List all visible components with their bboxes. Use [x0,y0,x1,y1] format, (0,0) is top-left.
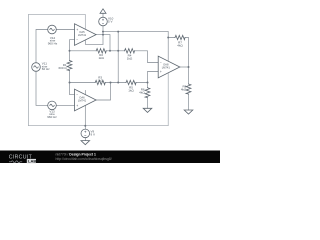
wire V11 to V13 [36,71,48,105]
source V12 [48,25,57,34]
svg-text:1kΩ: 1kΩ [127,57,133,61]
source V10 [99,17,108,26]
wire R1 bottom to R3 wire to OA6 - input [70,71,75,95]
wire R2 R4 node line [70,50,97,52]
wire R3 R5 node line [70,82,96,84]
ground G2 [143,108,152,112]
wire OA5 output [96,35,110,51]
wire OA5 V- U path [85,40,103,44]
wire OA8 V+ stub [167,38,169,62]
component labels [42,16,187,136]
wire between R3 and R5 [105,82,126,84]
svg-text:−: − [76,38,78,42]
circuitlab logo [9,155,37,164]
footer text [56,153,112,161]
svg-text:4kΩ: 4kΩ [139,91,145,95]
wire between R2 and R4 [106,50,124,52]
resistor R6 [145,88,150,98]
wire OA6 V- stub to bottom rail [84,105,86,129]
resistor R8 [186,84,191,94]
source polarity marks [84,19,104,136]
wire R4 to OA8 - input [135,51,159,63]
source V13 [48,101,57,110]
V10 plus minus [102,19,104,21]
svg-text:−: − [160,61,162,65]
wire OA6 output feedback [96,83,110,101]
ground G1 [81,141,90,145]
svg-text:1kΩ: 1kΩ [128,89,134,93]
op-amp input marks [76,28,162,108]
svg-text:LM741: LM741 [162,66,171,70]
resistor R4 [125,49,135,53]
resistor R7 [175,35,185,39]
wire R6 to ground [147,98,149,109]
svg-text:1kΩ: 1kΩ [98,56,104,60]
svg-text:http://circuitlab.com/c/dsahkx: http://circuitlab.com/c/dsahkxsqlbsg8/ [56,157,112,161]
wire OA8 output [180,66,189,68]
svg-text:+: + [160,70,162,74]
wire rail to R7 jog [168,32,175,38]
vcc arrow [100,9,106,14]
svg-text:LM741: LM741 [78,99,87,103]
svg-text:4kΩ: 4kΩ [181,88,187,92]
source V9 [81,129,90,138]
ground G3 [184,110,193,114]
svg-text:1kΩ: 1kΩ [97,78,103,82]
svg-text:LM741: LM741 [78,33,87,37]
svg-text:LAB: LAB [28,159,36,164]
svg-text:+: + [76,104,78,108]
svg-text:600 Ω: 600 Ω [59,66,68,70]
resistor R5 [126,80,136,84]
op-amp OA6 [75,89,97,111]
resistor R1 [67,61,72,71]
resistor R3 [95,80,105,84]
wire V12 to V11 column [36,30,48,63]
svg-text:960 Hz: 960 Hz [47,115,57,119]
label V10 [108,16,114,23]
label V11 [42,62,50,71]
svg-text:5 V: 5 V [108,19,113,23]
svg-text:−: − [76,93,78,97]
label R1 [59,63,68,70]
wire R5 node down to R6 [147,83,149,88]
svg-text:960 Hz: 960 Hz [48,41,58,45]
wire positive rail [103,31,168,33]
wire V10 bottom to rail [102,26,104,32]
wire R5 to OA8 + input [136,72,158,83]
source V11 [32,63,41,72]
wire rail drop column [117,32,119,83]
wire V12 to OA5 + input [56,29,74,31]
wire output to rail vertical [102,32,104,45]
wire V13 to OA6 + input [56,104,74,106]
footer bar [0,151,220,164]
svg-text:9 V: 9 V [91,132,96,136]
wire top border [28,14,168,125]
wire R8 to ground [188,94,190,110]
op-amp OA8 [158,56,180,78]
wire VCC arrow stem [102,13,104,17]
resistor R2 [96,49,106,53]
svg-text:4kΩ: 4kΩ [177,44,183,48]
label V9 [91,129,96,136]
svg-text:60 Hz: 60 Hz [42,67,50,71]
junction dots [69,31,190,127]
wire R7 to R8 column [185,38,189,85]
svg-text:+: + [76,28,78,32]
op-amp OA5 [75,24,97,46]
wire V9 to ground [84,138,86,141]
wire OA6 V+ stub [84,90,86,94]
wire OA5 - input column with R1 [70,40,75,61]
label R6 [139,87,145,94]
V9 plus minus [84,131,86,133]
label R8 [181,84,187,91]
